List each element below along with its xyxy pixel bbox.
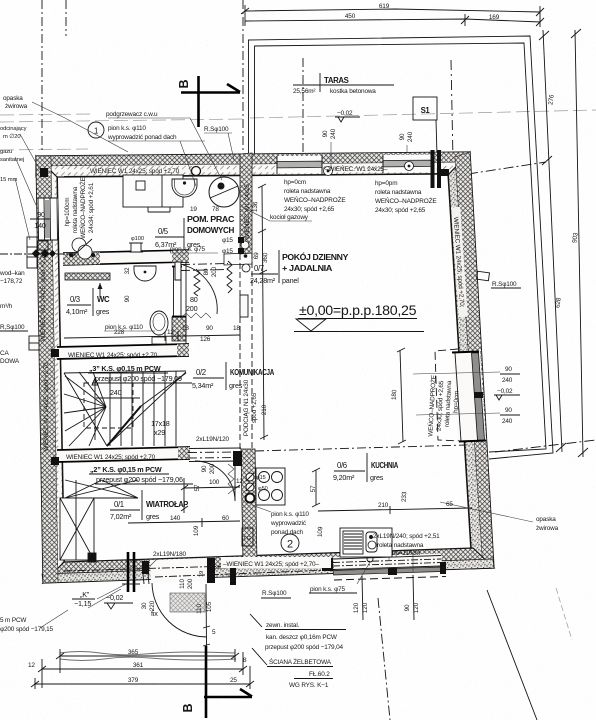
wiatrolap dim	[128, 515, 240, 527]
TARAS boundary double line	[249, 36, 554, 459]
right window dims 90/240 x2	[413, 366, 520, 425]
V3 risers	[241, 241, 249, 249]
0/2 KOMUNIKACJA	[192, 362, 275, 390]
dashed annotation frame near right window	[435, 349, 462, 441]
chimney K bars	[127, 552, 130, 592]
kitchen dims	[310, 468, 472, 537]
S1 marker	[407, 60, 453, 172]
WC bottom dim chain	[64, 325, 240, 343]
utility: washbasin half-oval	[172, 179, 197, 197]
R.S markers right	[477, 271, 490, 281]
mullion black bars	[431, 150, 435, 188]
WC: toilet	[150, 311, 168, 335]
stair walking line with arrow	[94, 378, 96, 440]
V2 WC right wall	[172, 317, 186, 341]
opening lintel hall top	[181, 264, 228, 271]
bold diagonal	[107, 406, 141, 446]
kitchen window note	[368, 533, 440, 557]
vent circle in top wall	[324, 167, 333, 176]
living room window blocks	[284, 179, 345, 213]
right wall band	[448, 152, 494, 569]
left bottom notes	[0, 610, 68, 633]
circled 2	[281, 534, 299, 552]
V3 middle dashed beam (podciag)	[240, 253, 252, 449]
0/1 WIATROLAP	[110, 490, 188, 521]
faint ground smudge lines bottom	[60, 652, 235, 655]
bottom wall: kitchen window	[322, 554, 446, 581]
zewn. instal. note	[250, 614, 346, 651]
hall risers: pipe circles near gas line	[72, 238, 86, 252]
kitchen: sink unit	[340, 528, 392, 557]
utility: floor drain fi100	[129, 243, 143, 252]
hp=0cm block top right wall	[0, 0, 1, 1]
H2 WC bottom wall	[51, 344, 189, 359]
rotated window annotation right wall	[425, 375, 460, 437]
SCIANA ZELBETOWA	[252, 648, 333, 689]
"2" K.S. note	[89, 465, 193, 484]
bottom right slanted dash-dot plot line	[378, 598, 390, 720]
V3 living/hall divider: upper hatched	[240, 153, 252, 254]
window top wall: living room glazing stripes	[277, 150, 441, 188]
radiator in WC	[65, 273, 110, 280]
rotated window annotation left (utility)	[64, 177, 95, 238]
dashed opening rect	[84, 383, 133, 428]
zigzag WC door	[194, 269, 200, 296]
"3" K.S. note	[88, 364, 192, 383]
utility: counter with washer	[123, 175, 183, 212]
long dash-dot line across at y450 to right wall	[255, 445, 466, 451]
kitchen: hob	[256, 468, 285, 505]
window right wall	[452, 351, 486, 442]
H1 divider utility/WC	[63, 250, 189, 265]
H3 stair bottom wall	[51, 447, 190, 465]
circled 1	[88, 122, 104, 138]
TARAS title	[293, 73, 394, 122]
faint roof overhang dashed line	[0, 110, 596, 150]
thin diagonals	[64, 373, 107, 446]
door 80/200 WC -> hall	[183, 265, 217, 314]
exterior step hatched	[170, 593, 205, 612]
gas pipe symbols on V3 wall near kitchen	[246, 473, 254, 481]
utility: water heater circle	[209, 177, 239, 207]
TG box	[242, 528, 253, 546]
window left wall (utility)	[37, 198, 58, 240]
V3 lower: wiatrolap/kitchen wall	[241, 449, 257, 564]
right dimension lines 276/903/628	[468, 29, 596, 457]
left wall band	[36, 156, 65, 583]
opening lintel between hall and wiatrolap (dash-dot)	[188, 452, 241, 458]
0/3 WC	[66, 288, 110, 316]
top wall band	[36, 152, 470, 177]
entrance door swing (outward)	[152, 583, 207, 637]
winder fan	[65, 376, 106, 407]
small shutter box below window	[38, 241, 48, 250]
door 90/200 hall->wiatrolap	[195, 461, 235, 501]
top-left dash-dot plot lines	[42, 0, 303, 158]
WC: corner washbasin	[134, 266, 156, 281]
utility door opening jamb post	[175, 262, 181, 280]
0/5 POM PRAC DOMOWYCH	[155, 215, 235, 249]
top dimension chain 619/450/169	[241, 3, 544, 27]
0/7 POKOJ DZIENNY	[250, 250, 349, 285]
black corner squares	[40, 168, 48, 177]
bottom dimension chains	[28, 649, 254, 689]
door kitchen (from hall) zigzag	[228, 464, 234, 494]
WC door thin lines above V2	[173, 266, 175, 317]
0/6 KUCHNIA	[333, 453, 399, 482]
H1b piece right of door with pipes	[224, 253, 252, 265]
bottom wall band	[42, 548, 494, 583]
bottom wall: entrance door opening	[142, 551, 236, 585]
